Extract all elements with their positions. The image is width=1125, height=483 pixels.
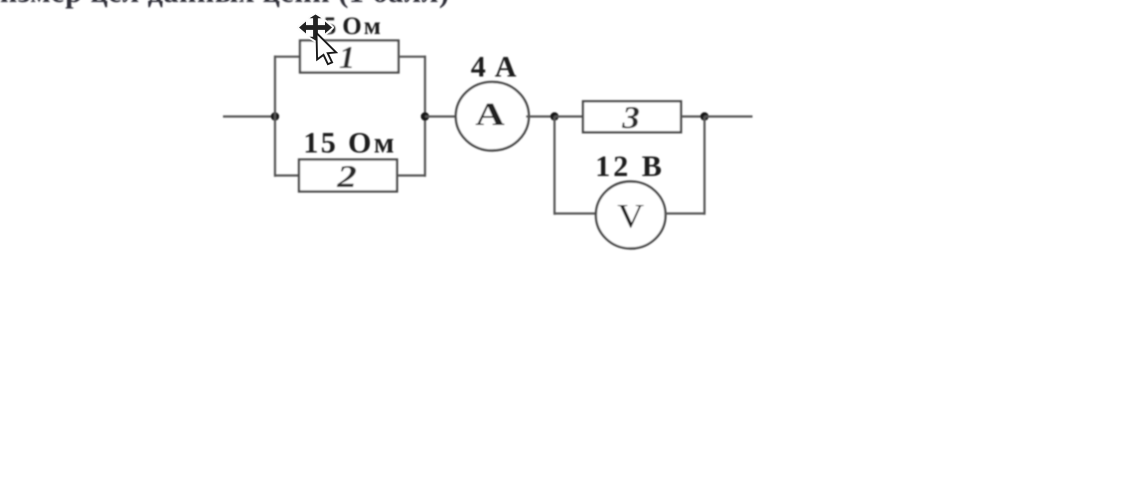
node: junction before ammeter xyxy=(421,112,429,120)
resistor R2 xyxy=(299,160,397,192)
wire: voltmeter branch right vertical xyxy=(703,117,705,215)
wire: R3 to right junction xyxy=(681,115,705,117)
svg-text:измер цел данных цепи (1 балл): измер цел данных цепи (1 балл) xyxy=(0,0,450,9)
wire: R1 to right vertical xyxy=(399,56,427,58)
resistor R3 xyxy=(583,101,681,132)
wire: left vertical branch xyxy=(274,56,276,177)
wire: top-left to R1 xyxy=(275,56,301,58)
svg-text:12 В: 12 В xyxy=(595,150,665,183)
resistor R1 xyxy=(300,41,399,73)
cursor: arrow pointer xyxy=(317,33,337,64)
ammeter U1 circle xyxy=(456,82,529,151)
wire: right vertical branch xyxy=(424,56,426,177)
svg-text:15 Ом: 15 Ом xyxy=(303,127,396,160)
node: left junction xyxy=(271,112,279,120)
voltmeter U2 circle xyxy=(596,182,666,249)
wire: left lead xyxy=(223,115,275,117)
wire: right lead xyxy=(705,115,753,117)
wire: junction to ammeter xyxy=(425,115,458,117)
svg-text:3: 3 xyxy=(621,99,640,135)
wire: junction to R3 xyxy=(555,115,585,117)
wire: voltmeter branch left vertical xyxy=(553,117,555,215)
wire: R2 to right vertical xyxy=(397,174,425,176)
wire: left horizontal to voltmeter xyxy=(555,212,598,214)
svg-text:А: А xyxy=(475,97,505,133)
svg-text:Ом: Ом xyxy=(342,13,382,40)
cursor: move (4-way arrows) xyxy=(299,15,332,41)
wire: bottom-left to R2 xyxy=(275,174,300,176)
svg-text:1: 1 xyxy=(339,39,355,75)
node: right junction xyxy=(700,112,708,120)
wire: ammeter to second junction xyxy=(526,115,554,117)
svg-text:V: V xyxy=(617,198,644,235)
node: junction after ammeter xyxy=(550,112,558,120)
svg-text:2: 2 xyxy=(336,158,357,194)
svg-text:4 А: 4 А xyxy=(471,51,518,84)
wire: voltmeter to right vertical xyxy=(665,212,705,214)
